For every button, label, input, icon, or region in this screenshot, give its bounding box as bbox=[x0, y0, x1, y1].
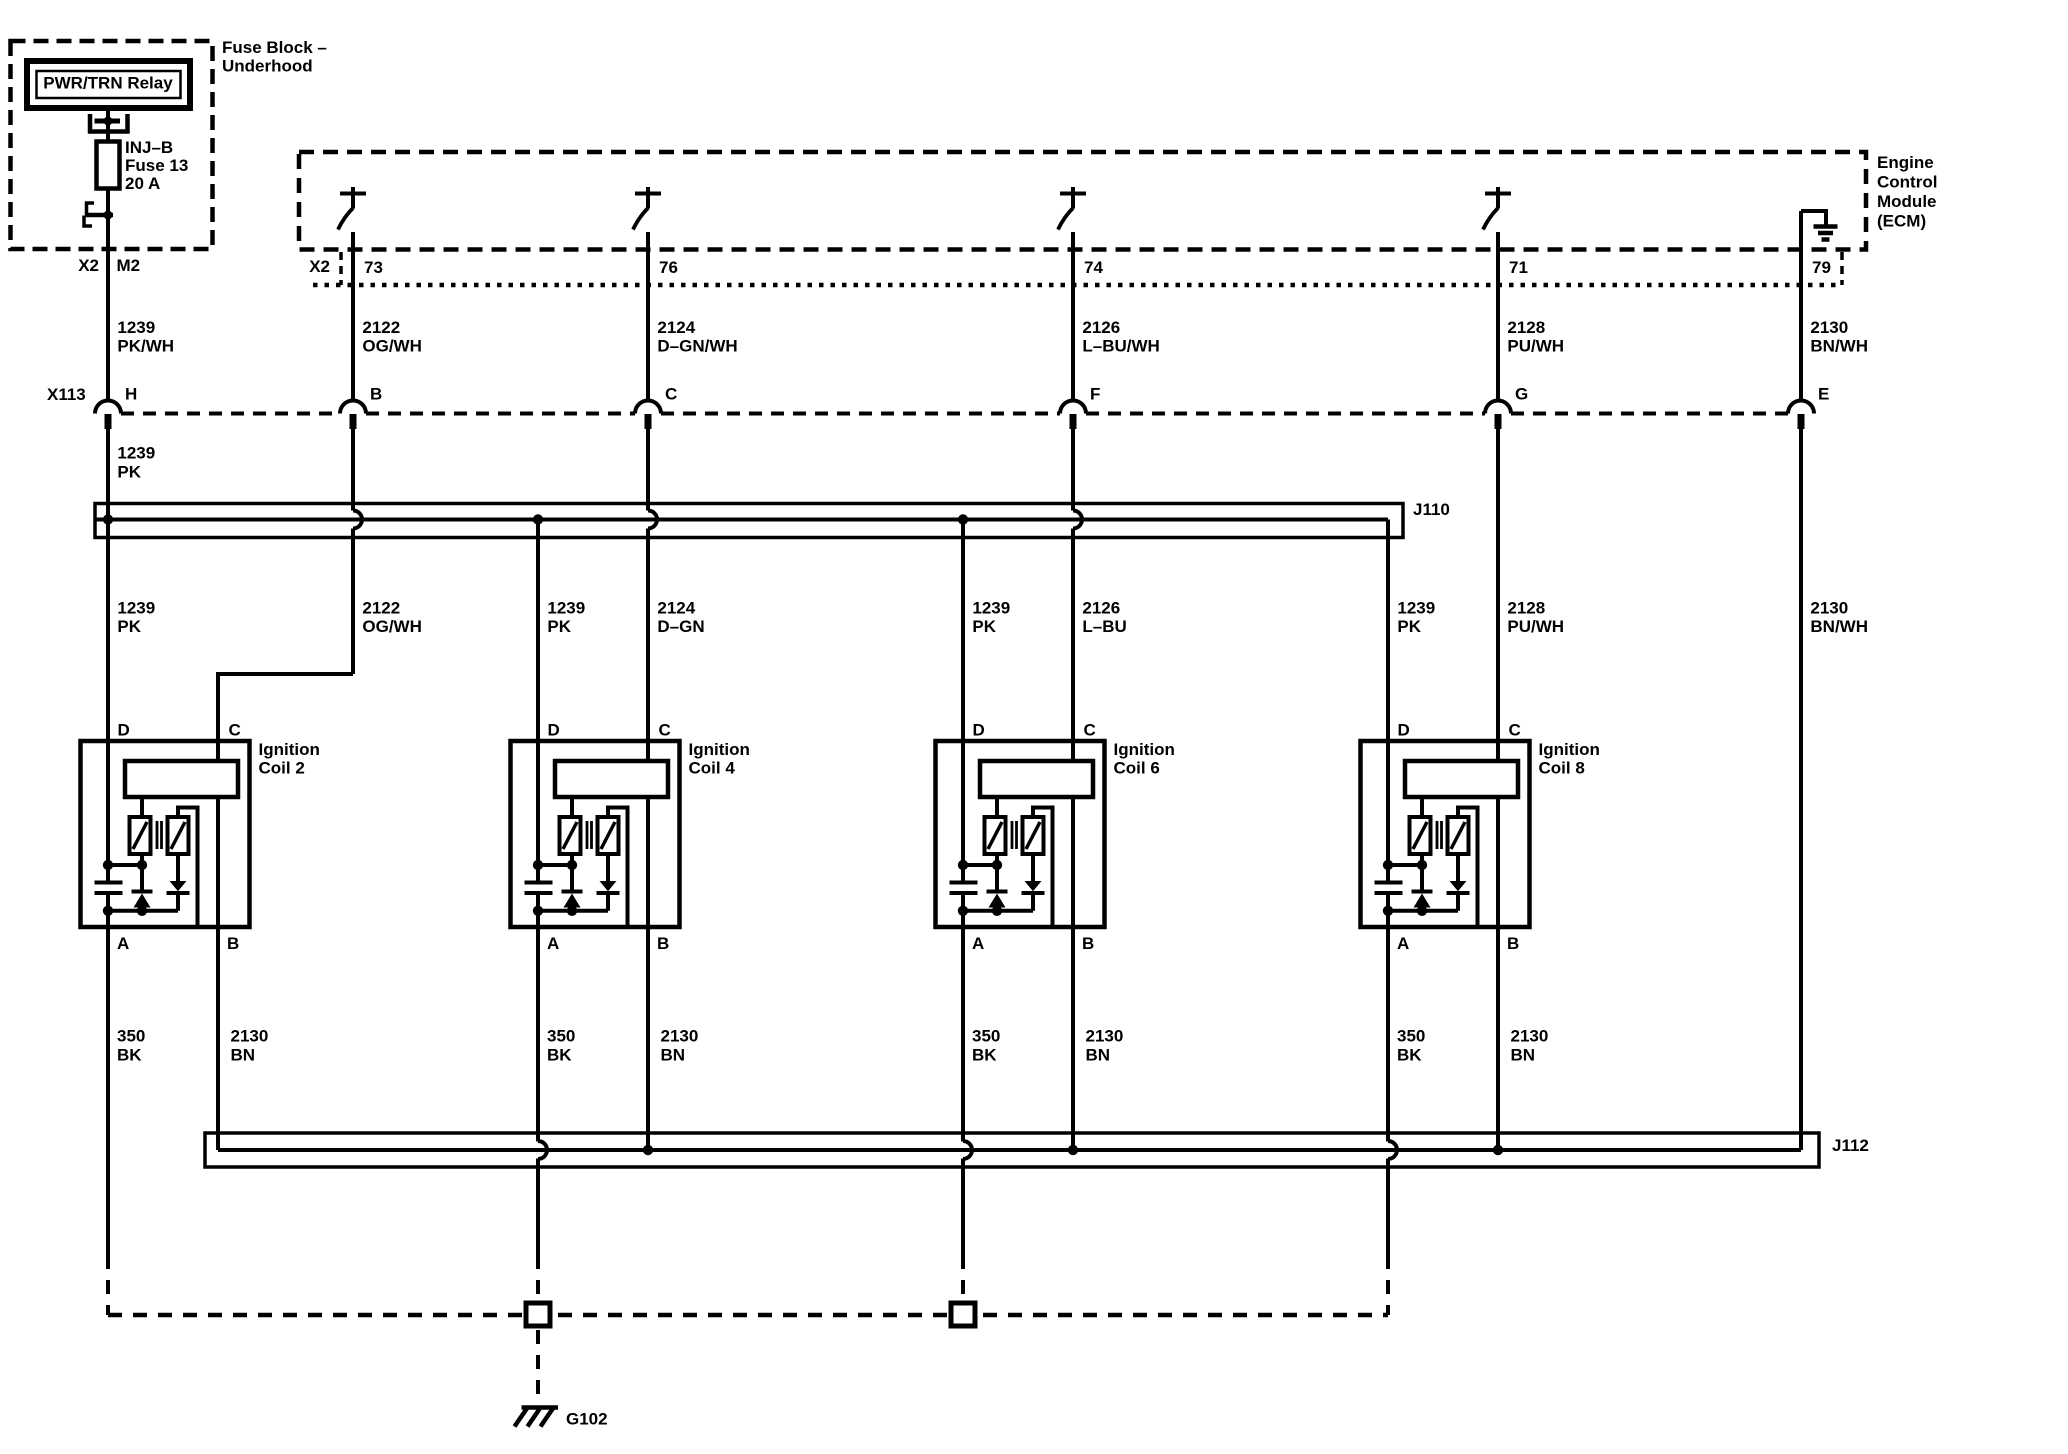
svg-text:A: A bbox=[547, 934, 559, 953]
svg-text:BK: BK bbox=[547, 1046, 572, 1065]
svg-text:(ECM): (ECM) bbox=[1877, 212, 1926, 231]
svg-text:C: C bbox=[1509, 721, 1521, 740]
svg-text:Coil 2: Coil 2 bbox=[259, 759, 305, 778]
svg-text:PK: PK bbox=[1397, 617, 1421, 636]
svg-text:2130: 2130 bbox=[1810, 599, 1848, 618]
svg-text:D: D bbox=[973, 721, 985, 740]
svg-text:B: B bbox=[657, 934, 669, 953]
svg-text:PK: PK bbox=[117, 463, 141, 482]
svg-text:C: C bbox=[1084, 721, 1096, 740]
svg-text:2130: 2130 bbox=[1810, 318, 1848, 337]
svg-text:74: 74 bbox=[1084, 258, 1103, 277]
svg-text:D: D bbox=[1398, 721, 1410, 740]
svg-text:A: A bbox=[117, 934, 129, 953]
svg-text:L–BU: L–BU bbox=[1082, 617, 1126, 636]
svg-text:2130: 2130 bbox=[1086, 1027, 1124, 1046]
svg-text:L–BU/WH: L–BU/WH bbox=[1082, 337, 1159, 356]
svg-text:BN/WH: BN/WH bbox=[1810, 337, 1868, 356]
svg-text:Coil 4: Coil 4 bbox=[689, 759, 736, 778]
svg-text:BK: BK bbox=[1397, 1046, 1422, 1065]
svg-text:Module: Module bbox=[1877, 192, 1937, 211]
svg-text:1239: 1239 bbox=[972, 599, 1010, 618]
svg-text:PK: PK bbox=[972, 617, 996, 636]
svg-text:PK/WH: PK/WH bbox=[117, 337, 174, 356]
svg-text:2130: 2130 bbox=[1511, 1027, 1549, 1046]
svg-text:G102: G102 bbox=[566, 1410, 608, 1429]
svg-text:X2: X2 bbox=[309, 257, 330, 276]
svg-text:1239: 1239 bbox=[547, 599, 585, 618]
svg-text:2128: 2128 bbox=[1507, 599, 1545, 618]
svg-text:D: D bbox=[118, 721, 130, 740]
svg-text:Underhood: Underhood bbox=[222, 57, 313, 76]
svg-text:BN: BN bbox=[231, 1046, 256, 1065]
svg-text:20 A: 20 A bbox=[125, 174, 160, 193]
svg-text:Ignition: Ignition bbox=[689, 740, 750, 759]
svg-text:D–GN/WH: D–GN/WH bbox=[657, 337, 737, 356]
svg-text:A: A bbox=[1397, 934, 1409, 953]
svg-text:350: 350 bbox=[1397, 1027, 1425, 1046]
svg-text:H: H bbox=[125, 385, 137, 404]
svg-text:PU/WH: PU/WH bbox=[1507, 337, 1564, 356]
svg-text:2126: 2126 bbox=[1082, 599, 1120, 618]
svg-text:1239: 1239 bbox=[1397, 599, 1435, 618]
svg-text:BN: BN bbox=[661, 1046, 686, 1065]
svg-text:M2: M2 bbox=[117, 256, 141, 275]
svg-text:Ignition: Ignition bbox=[1539, 740, 1600, 759]
svg-text:Ignition: Ignition bbox=[259, 740, 320, 759]
svg-text:Engine: Engine bbox=[1877, 153, 1934, 172]
svg-text:Coil 8: Coil 8 bbox=[1539, 759, 1585, 778]
svg-text:2126: 2126 bbox=[1082, 318, 1120, 337]
svg-text:D: D bbox=[548, 721, 560, 740]
svg-text:Control: Control bbox=[1877, 173, 1937, 192]
svg-text:BN: BN bbox=[1511, 1046, 1536, 1065]
svg-text:350: 350 bbox=[117, 1027, 145, 1046]
svg-text:OG/WH: OG/WH bbox=[362, 617, 422, 636]
svg-text:C: C bbox=[665, 385, 677, 404]
svg-text:2130: 2130 bbox=[661, 1027, 699, 1046]
svg-text:J110: J110 bbox=[1413, 500, 1450, 519]
svg-text:OG/WH: OG/WH bbox=[362, 337, 422, 356]
svg-text:1239: 1239 bbox=[117, 599, 155, 618]
svg-text:350: 350 bbox=[547, 1027, 575, 1046]
svg-text:BN: BN bbox=[1086, 1046, 1111, 1065]
svg-text:PK: PK bbox=[117, 617, 141, 636]
svg-text:BK: BK bbox=[972, 1046, 997, 1065]
svg-text:71: 71 bbox=[1509, 258, 1528, 277]
svg-text:PU/WH: PU/WH bbox=[1507, 617, 1564, 636]
svg-text:C: C bbox=[659, 721, 671, 740]
svg-text:B: B bbox=[1507, 934, 1519, 953]
svg-text:Fuse 13: Fuse 13 bbox=[125, 156, 188, 175]
svg-text:BK: BK bbox=[117, 1046, 142, 1065]
svg-text:D–GN: D–GN bbox=[657, 617, 704, 636]
svg-text:C: C bbox=[229, 721, 241, 740]
svg-text:350: 350 bbox=[972, 1027, 1000, 1046]
svg-text:A: A bbox=[972, 934, 984, 953]
svg-text:X113: X113 bbox=[47, 385, 86, 404]
svg-text:B: B bbox=[370, 385, 382, 404]
svg-text:INJ–B: INJ–B bbox=[125, 138, 173, 157]
svg-text:2130: 2130 bbox=[231, 1027, 269, 1046]
svg-text:PK: PK bbox=[547, 617, 571, 636]
svg-text:PWR/TRN Relay: PWR/TRN Relay bbox=[43, 74, 173, 93]
svg-text:B: B bbox=[227, 934, 239, 953]
svg-text:F: F bbox=[1090, 385, 1100, 404]
svg-text:2124: 2124 bbox=[657, 318, 695, 337]
svg-text:Ignition: Ignition bbox=[1114, 740, 1175, 759]
svg-text:Coil 6: Coil 6 bbox=[1114, 759, 1160, 778]
svg-text:X2: X2 bbox=[78, 256, 99, 275]
svg-text:76: 76 bbox=[659, 258, 678, 277]
svg-text:E: E bbox=[1818, 385, 1829, 404]
svg-text:2122: 2122 bbox=[362, 318, 400, 337]
svg-text:1239: 1239 bbox=[117, 318, 155, 337]
svg-text:B: B bbox=[1082, 934, 1094, 953]
svg-text:79: 79 bbox=[1812, 258, 1831, 277]
svg-text:Fuse Block –: Fuse Block – bbox=[222, 38, 327, 57]
svg-text:73: 73 bbox=[364, 258, 383, 277]
svg-text:1239: 1239 bbox=[117, 444, 155, 463]
svg-text:2128: 2128 bbox=[1507, 318, 1545, 337]
svg-text:J112: J112 bbox=[1832, 1136, 1869, 1155]
svg-text:G: G bbox=[1515, 385, 1528, 404]
svg-text:2122: 2122 bbox=[362, 599, 400, 618]
svg-text:2124: 2124 bbox=[657, 599, 695, 618]
svg-text:BN/WH: BN/WH bbox=[1810, 617, 1868, 636]
